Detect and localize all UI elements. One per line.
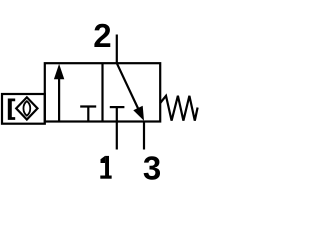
svg-text:2: 2 (93, 17, 111, 54)
svg-text:3: 3 (143, 149, 161, 186)
